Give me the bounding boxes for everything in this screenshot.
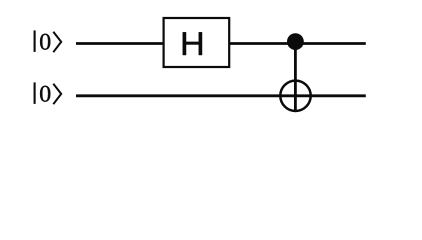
wire CNOT vertical connector — [294, 42, 297, 112]
node q0 label |0> — [35, 30, 62, 52]
wire q0 right segment — [230, 42, 366, 45]
CNOT control dot — [287, 33, 304, 50]
CNOT target circle — [280, 81, 310, 111]
wire q0 left segment — [76, 42, 163, 45]
gate H box — [164, 18, 230, 67]
node q1 label |0> — [35, 82, 62, 104]
gate H label — [183, 32, 202, 55]
wire q1 — [76, 94, 366, 97]
